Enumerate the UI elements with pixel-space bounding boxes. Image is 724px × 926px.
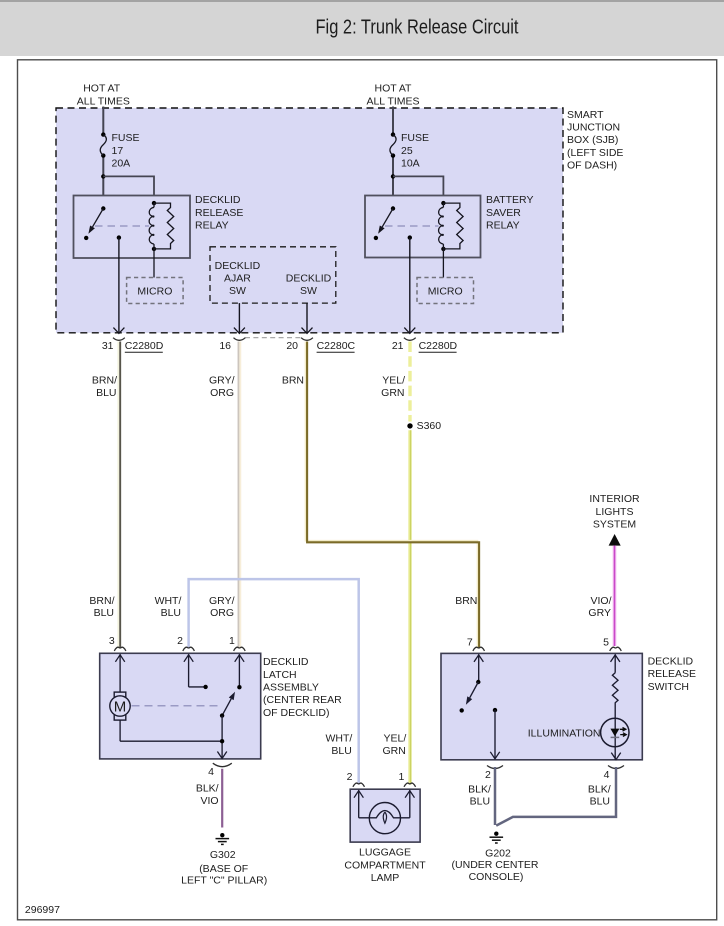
svg-text:31: 31	[102, 340, 114, 352]
svg-text:COMPARTMENT: COMPARTMENT	[344, 859, 426, 871]
ground G202	[490, 832, 504, 844]
decklid release relay box	[74, 196, 191, 259]
svg-text:296997: 296997	[25, 904, 60, 916]
svg-text:VIO: VIO	[201, 795, 219, 807]
svg-text:16: 16	[219, 340, 231, 352]
svg-text:3: 3	[109, 635, 115, 647]
svg-text:YEL/: YEL/	[382, 374, 405, 386]
wire: decklid sw to pin 20	[302, 303, 313, 333]
wire: ajar sw to pin 16	[234, 303, 245, 333]
micro box (left)	[127, 278, 184, 304]
switch pin 2 exit bump	[485, 766, 503, 781]
label YEL/GRN (upper)	[381, 374, 405, 399]
decklid release relay label	[195, 194, 243, 231]
svg-text:10A: 10A	[401, 158, 420, 170]
svg-text:AJAR: AJAR	[224, 273, 251, 285]
svg-text:BLU: BLU	[590, 796, 610, 808]
label GRY/ORG (upper)	[209, 374, 235, 399]
svg-text:ORG: ORG	[210, 387, 234, 399]
label BRN/BLU (upper)	[92, 374, 117, 399]
latch motor dashed link	[132, 705, 219, 707]
svg-text:YEL/: YEL/	[384, 733, 407, 745]
hot at all times (left)	[77, 83, 130, 108]
svg-text:21: 21	[392, 340, 404, 352]
svg-text:MICRO: MICRO	[428, 286, 463, 298]
switch pin 5 entry	[603, 636, 621, 673]
SJB label	[567, 109, 623, 172]
pin 20 connector bump and label C2280C	[286, 338, 355, 353]
wire BLK/BLU pin2 to G202	[494, 767, 497, 825]
ground G302	[216, 833, 230, 844]
svg-text:(LEFT SIDE: (LEFT SIDE	[567, 147, 623, 159]
node: left feed junction	[101, 174, 105, 178]
wire GRY/ORG pin16 to latch pin1	[239, 342, 241, 649]
svg-text:LIGHTS: LIGHTS	[596, 506, 634, 518]
decklid ajar sw box	[210, 247, 336, 303]
label BRN/BLU (lower)	[89, 595, 114, 619]
svg-text:25: 25	[401, 145, 413, 157]
svg-text:CONSOLE): CONSOLE)	[469, 871, 524, 883]
svg-text:VIO/: VIO/	[590, 595, 611, 607]
svg-text:BLU: BLU	[470, 796, 490, 808]
svg-text:G302: G302	[210, 849, 236, 861]
svg-text:2: 2	[177, 635, 183, 647]
battery saver relay label	[486, 194, 533, 231]
svg-text:17: 17	[112, 145, 124, 157]
svg-text:FUSE: FUSE	[401, 132, 429, 144]
switch blade	[460, 682, 479, 713]
switch pin 7 entry	[467, 636, 485, 684]
svg-text:BRN/: BRN/	[89, 595, 114, 607]
svg-text:BLU: BLU	[94, 607, 114, 619]
svg-text:2: 2	[485, 769, 491, 781]
svg-text:BATTERY: BATTERY	[486, 194, 533, 206]
illumination LED	[601, 718, 629, 760]
label BLK/VIO	[196, 783, 219, 808]
svg-text:FUSE: FUSE	[112, 132, 140, 144]
fuse 25 label	[401, 132, 429, 169]
svg-text:BLK/: BLK/	[588, 784, 611, 796]
svg-text:LEFT "C" PILLAR): LEFT "C" PILLAR)	[181, 874, 267, 886]
relay dashed link (right)	[385, 225, 439, 227]
smart junction box (SJB)	[56, 108, 563, 333]
svg-text:20: 20	[286, 340, 298, 352]
decklid release switch box	[441, 653, 642, 759]
svg-text:1: 1	[399, 771, 405, 783]
switch pin 4 exit	[604, 753, 624, 781]
switch illumination resistor	[612, 673, 618, 718]
svg-text:GRN: GRN	[381, 387, 404, 399]
svg-text:C2280D: C2280D	[419, 340, 458, 352]
svg-text:LUGGAGE: LUGGAGE	[359, 847, 411, 859]
svg-text:S360: S360	[417, 420, 442, 432]
svg-text:OF DASH): OF DASH)	[567, 160, 617, 172]
latch pin 4 exit bump	[208, 763, 232, 778]
svg-text:(UNDER CENTER: (UNDER CENTER	[452, 859, 539, 871]
wire YEL/GRN solid S360 to lamp pin1	[408, 430, 412, 784]
latch pin 3 entry	[109, 635, 126, 692]
decklid latch assembly box	[100, 653, 261, 759]
svg-text:JUNCTION: JUNCTION	[567, 122, 620, 134]
wire BLK/VIO latch pin4 to G302	[221, 769, 223, 828]
wire BRN pin20 to switch pin7	[306, 342, 480, 649]
svg-text:LAMP: LAMP	[371, 872, 400, 884]
label BLK/BLU (pin4)	[588, 784, 611, 808]
svg-text:GRY: GRY	[588, 607, 611, 619]
svg-text:DECKLID: DECKLID	[286, 273, 332, 285]
ground G202 label	[452, 847, 539, 883]
svg-text:GRY/: GRY/	[209, 595, 235, 607]
wire: left battery feed	[102, 107, 104, 209]
svg-text:DECKLID: DECKLID	[648, 656, 694, 668]
luggage compartment lamp label	[344, 847, 426, 884]
latch switch blade	[220, 692, 235, 718]
latch pin 2 entry	[177, 635, 208, 689]
svg-text:ALL TIMES: ALL TIMES	[366, 95, 419, 107]
svg-text:BLU: BLU	[96, 387, 116, 399]
svg-text:BLU: BLU	[161, 607, 181, 619]
latch pin 1 entry	[229, 635, 245, 689]
wire: relay output to pin 21	[404, 235, 415, 333]
luggage compartment lamp box	[350, 789, 420, 842]
wire: right battery feed	[392, 107, 394, 209]
header band	[0, 0, 724, 56]
svg-text:G202: G202	[485, 847, 511, 859]
svg-text:M: M	[114, 698, 127, 715]
relay switch (right)	[374, 206, 396, 240]
wire BLK/BLU pin4 to G202	[496, 767, 616, 826]
label BLK/BLU (pin2)	[468, 784, 491, 808]
fuse F17	[100, 132, 106, 157]
ground G302 label	[181, 849, 267, 886]
svg-text:ORG: ORG	[210, 607, 234, 619]
hot at all times (right)	[366, 83, 419, 108]
wire: branch to relay coil (left)	[103, 176, 154, 203]
svg-text:4: 4	[604, 769, 610, 781]
svg-text:OF DECKLID): OF DECKLID)	[263, 707, 330, 719]
svg-text:RELAY: RELAY	[486, 220, 520, 232]
label WHT/BLU (lamp)	[325, 733, 352, 758]
svg-text:(BASE OF: (BASE OF	[199, 863, 248, 875]
interior lights system label	[589, 493, 640, 530]
svg-text:ASSEMBLY: ASSEMBLY	[263, 682, 319, 694]
pin 31 connector bump and label C2280D	[102, 338, 164, 353]
relay dashed link (left)	[95, 225, 149, 227]
svg-text:C2280C: C2280C	[317, 340, 356, 352]
label VIO/GRY	[588, 595, 611, 619]
svg-text:SYSTEM: SYSTEM	[593, 519, 636, 531]
pin 21 connector bump and label C2280D	[392, 338, 458, 353]
relay switch (left)	[84, 206, 106, 240]
fuse 17 label	[112, 132, 140, 169]
svg-text:DECKLID: DECKLID	[195, 194, 241, 206]
svg-text:RELAY: RELAY	[195, 220, 229, 232]
svg-text:INTERIOR: INTERIOR	[589, 493, 640, 505]
svg-text:HOT AT: HOT AT	[83, 83, 121, 95]
svg-text:RELEASE: RELEASE	[648, 668, 696, 680]
relay coil (right)	[439, 201, 464, 251]
svg-text:BOX (SJB): BOX (SJB)	[567, 134, 618, 146]
svg-text:BRN: BRN	[282, 374, 304, 386]
svg-text:BRN: BRN	[455, 595, 477, 607]
svg-text:MICRO: MICRO	[137, 286, 172, 298]
svg-text:ALL TIMES: ALL TIMES	[77, 95, 130, 107]
decklid release switch label	[648, 656, 696, 693]
label YEL/GRN (lower)	[382, 733, 406, 758]
switch pole to pin 2	[490, 708, 499, 759]
wire VIO/GRY arrow to switch pin5	[613, 546, 617, 646]
label WHT/BLU (lower left)	[155, 595, 182, 619]
svg-text:Fig 2: Trunk Release Circuit: Fig 2: Trunk Release Circuit	[316, 17, 519, 39]
svg-text:HOT AT: HOT AT	[375, 83, 413, 95]
svg-text:BLK/: BLK/	[468, 784, 491, 796]
wire WHT/BLU latch pin2 to lamp pin2	[189, 579, 359, 784]
wire YEL/GRN dashed pin21 to S360	[408, 342, 411, 422]
svg-text:C2280D: C2280D	[125, 340, 164, 352]
svg-text:RELEASE: RELEASE	[195, 207, 243, 219]
micro box (right)	[417, 278, 474, 304]
svg-text:1: 1	[229, 635, 235, 647]
svg-text:20A: 20A	[112, 158, 131, 170]
svg-text:WHT/: WHT/	[325, 733, 352, 745]
svg-text:LATCH: LATCH	[263, 669, 297, 681]
wire: branch to relay coil (right)	[393, 176, 443, 203]
svg-text:2: 2	[347, 771, 353, 783]
latch motor M	[110, 692, 130, 720]
battery saver relay box	[365, 196, 481, 258]
svg-text:WHT/: WHT/	[155, 595, 182, 607]
decklid latch assembly label	[263, 656, 342, 719]
latch bottom wire	[120, 716, 227, 759]
wire BRN/BLU pin31 to latch pin3	[118, 342, 120, 649]
svg-text:SWITCH: SWITCH	[648, 681, 689, 693]
svg-text:DECKLID: DECKLID	[215, 260, 261, 272]
interior lights arrow	[609, 534, 621, 546]
wire: coil to micro (right)	[442, 249, 444, 278]
lamp pin 1 entry	[399, 771, 416, 818]
splice S360	[407, 420, 441, 432]
svg-text:(CENTER REAR: (CENTER REAR	[263, 694, 342, 706]
svg-text:7: 7	[467, 636, 473, 648]
label GRY/ORG (lower)	[209, 595, 235, 619]
svg-text:BRN/: BRN/	[92, 374, 117, 386]
svg-text:5: 5	[603, 636, 609, 648]
svg-text:GRN: GRN	[382, 745, 405, 757]
wire: coil to micro (left)	[153, 249, 155, 278]
svg-text:BLK/: BLK/	[196, 783, 219, 795]
connector C2280C gray dashed edge	[245, 337, 301, 339]
svg-text:4: 4	[208, 766, 214, 778]
svg-text:GRY/: GRY/	[209, 374, 235, 386]
svg-text:BLU: BLU	[331, 745, 351, 757]
svg-text:ILLUMINATION: ILLUMINATION	[528, 727, 601, 739]
svg-text:SAVER: SAVER	[486, 207, 521, 219]
node: right feed junction	[391, 174, 395, 178]
lamp pin 2 entry	[347, 771, 365, 818]
svg-text:SW: SW	[229, 285, 246, 297]
wire: relay output to pin 31	[113, 235, 124, 333]
fuse F25	[390, 132, 396, 157]
relay coil (left)	[149, 201, 174, 251]
svg-text:SMART: SMART	[567, 109, 604, 121]
svg-text:SW: SW	[300, 285, 317, 297]
pin 16 connector bump	[219, 338, 245, 352]
lamp bulb	[359, 803, 410, 834]
svg-text:DECKLID: DECKLID	[263, 656, 309, 668]
